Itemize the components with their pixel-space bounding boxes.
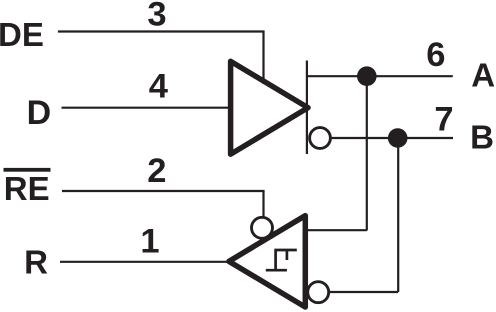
- svg-text:R: R: [24, 243, 48, 280]
- driver output bar: [306, 61, 308, 155]
- label RE overline: [4, 168, 51, 172]
- svg-text:3: 3: [147, 0, 166, 33]
- svg-text:B: B: [470, 119, 494, 156]
- svg-text:D: D: [27, 94, 52, 132]
- wire B branch horizontal into receiver bubble: [326, 291, 398, 293]
- junction dot on A: [357, 66, 377, 86]
- wire RE horizontal (pin 2 net): [62, 190, 265, 192]
- receiver inverting input bubble: [308, 282, 329, 303]
- driver op-amp triangle: [231, 61, 308, 154]
- wire R horizontal (pin 1 net): [60, 261, 228, 263]
- svg-text:6: 6: [426, 36, 445, 74]
- wire B horizontal (pin 7 net): [328, 137, 453, 139]
- svg-text:DE: DE: [0, 16, 44, 53]
- wire D horizontal (pin 4 net): [62, 107, 233, 109]
- wire RE vertical drop to enable bubble: [262, 191, 264, 218]
- receiver enable bubble (active low): [252, 217, 273, 238]
- svg-text:1: 1: [140, 222, 159, 260]
- wire A horizontal (pin 6 net): [307, 75, 453, 77]
- wire DE horizontal (pin 3 net): [58, 30, 265, 32]
- wire A branch vertical down to receiver input: [366, 76, 368, 230]
- junction dot on B: [388, 128, 408, 148]
- svg-text:2: 2: [147, 152, 166, 190]
- wire B branch vertical down to receiver bubble: [397, 138, 399, 292]
- receiver op-amp triangle: [229, 216, 305, 307]
- svg-text:RE: RE: [4, 170, 50, 207]
- wire DE vertical drop to driver enable: [262, 32, 264, 85]
- wire A branch horizontal into receiver: [305, 229, 367, 231]
- svg-text:7: 7: [434, 100, 453, 138]
- svg-text:4: 4: [149, 67, 168, 105]
- hysteresis symbol inside receiver: [266, 250, 297, 271]
- svg-text:A: A: [471, 56, 495, 93]
- driver inverting output bubble: [310, 128, 331, 149]
